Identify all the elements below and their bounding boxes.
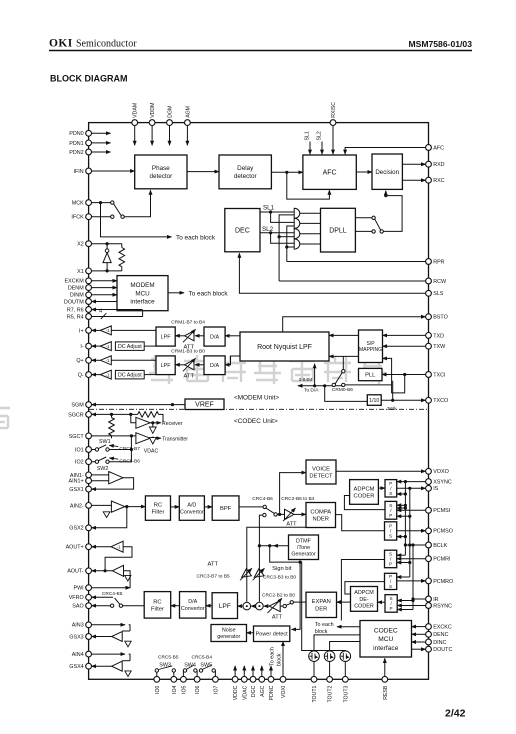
switch SW1 contact a	[95, 448, 98, 451]
svg-text:CRC4-B6: CRC4-B6	[252, 496, 273, 502]
wire clock select right	[345, 384, 392, 386]
svg-text:ADPCM: ADPCM	[354, 486, 375, 492]
switch SW1 blade	[98, 445, 106, 449]
svg-text:DER: DER	[315, 607, 327, 613]
svg-text:DC Adjust: DC Adjust	[118, 344, 142, 350]
control arrow CRC5-B7	[109, 445, 118, 446]
amp Q+ buffer	[92, 359, 101, 361]
pin VFRO	[86, 594, 92, 600]
pin XSYNC	[426, 479, 432, 485]
svg-text:-1: -1	[106, 372, 110, 377]
svg-text:RC: RC	[153, 599, 161, 605]
wire Decision to RXC	[402, 179, 425, 181]
svg-text:generator: generator	[217, 634, 240, 640]
svg-text:SL1: SL1	[305, 131, 311, 140]
svg-text:IFCK: IFCK	[71, 215, 84, 221]
wire SL1 from DEC	[260, 211, 294, 213]
svg-text:Filter: Filter	[152, 510, 165, 516]
svg-text:CRC2-B2 to B0: CRC2-B2 to B0	[262, 592, 295, 598]
switch DPLL blade	[375, 219, 381, 230]
pin BSTO	[426, 314, 432, 320]
wire GSX3 out	[92, 636, 112, 638]
svg-text:RSYNC: RSYNC	[433, 603, 452, 609]
attenuator TX ATT	[285, 509, 294, 519]
node TXCI junction	[403, 373, 406, 376]
wire clock to 1/10 input	[323, 384, 326, 387]
pin X1	[86, 268, 92, 274]
pin PDNC	[268, 676, 274, 682]
pin IFCK	[86, 214, 92, 220]
wire IR to S/P6	[413, 598, 426, 600]
block COMPANDER	[306, 503, 336, 528]
svg-text:R7, R6: R7, R6	[67, 307, 84, 313]
block RC Filter RX	[144, 592, 171, 619]
svg-text:-1: -1	[106, 328, 110, 333]
separator dash-dot line MODEM/CODEC	[89, 408, 429, 410]
svg-text:SW2: SW2	[97, 466, 109, 472]
svg-text:SAO: SAO	[72, 604, 83, 610]
wire DINC	[412, 641, 426, 643]
block Phase detector	[135, 155, 187, 189]
svg-text:PCMSI: PCMSI	[433, 508, 450, 514]
svg-text:COMPA: COMPA	[310, 509, 331, 515]
bus arrow to S/P2 b	[397, 515, 410, 517]
wire VOICE DETECT to VOXO	[336, 470, 426, 472]
wire Sign bit path	[270, 546, 346, 651]
switch DPLL contact common	[380, 230, 383, 233]
pin I-	[86, 343, 92, 349]
wire RC to A/D	[171, 506, 180, 508]
wire driver2 feed	[330, 642, 360, 651]
wire PDN1	[92, 142, 111, 144]
svg-text:To D/A: To D/A	[304, 388, 319, 394]
block S/P 2	[385, 501, 397, 519]
wire VFRO	[92, 596, 114, 598]
pin DGM	[167, 120, 173, 126]
wire AIN2 feedback to GSX2	[92, 507, 127, 528]
svg-text:Semiconductor: Semiconductor	[76, 39, 137, 50]
wire Power detect to Noise generator	[247, 632, 254, 634]
svg-text:VDDM: VDDM	[150, 103, 156, 118]
block AFC U-AFC	[303, 155, 356, 189]
wire S/P2 to ADPCM CODER loop	[344, 496, 385, 510]
wire S/P MAPPING to Root Nyquist upper	[329, 334, 359, 336]
svg-text:EXCKC: EXCKC	[433, 625, 452, 631]
amp Receiver	[131, 414, 136, 422]
wire DENC	[412, 633, 426, 635]
wire AIN4	[92, 653, 126, 655]
wire Delay detector to AFC	[271, 171, 303, 173]
svg-text:block: block	[315, 629, 328, 635]
svg-text:IO4: IO4	[172, 685, 178, 693]
svg-text:LPF: LPF	[219, 603, 231, 610]
wire gate1 to DPLL	[300, 212, 321, 214]
svg-text:PDNC: PDNC	[269, 685, 275, 700]
svg-text:Noise: Noise	[222, 628, 236, 634]
svg-text:S: S	[389, 534, 392, 539]
svg-text:ATT: ATT	[286, 522, 297, 528]
switch CRC4-B6 contact b (DTMF)	[263, 513, 266, 516]
wire AIN2 to RC Filter	[125, 506, 146, 508]
wire R7 R6 bus	[92, 309, 143, 311]
svg-text:detector: detector	[149, 173, 172, 180]
switch RX contact a	[290, 601, 293, 604]
pin VDDM	[149, 120, 155, 126]
pin SGCR	[86, 412, 92, 418]
wire R5 R4 bus	[92, 311, 143, 317]
svg-text:CRC3-B7 to B5: CRC3-B7 to B5	[197, 574, 230, 580]
svg-text:To each block: To each block	[189, 290, 229, 297]
block S/P 6	[385, 595, 397, 613]
svg-text:OKI: OKI	[49, 38, 73, 50]
pin PCMRI	[426, 556, 432, 562]
svg-text:IO2: IO2	[75, 460, 84, 466]
pin DOUTM	[86, 299, 92, 305]
wire driver1 feed	[314, 635, 360, 651]
wire BPF to switch	[239, 506, 263, 508]
switch MCK/IFCK blade	[114, 204, 122, 216]
wire P/S1 to IS	[397, 487, 426, 489]
wire EXPANDER to RX switch	[293, 601, 306, 603]
wire SW1 to SGCT node	[109, 449, 131, 451]
svg-text:SW1: SW1	[99, 439, 111, 445]
pin RSYNC	[426, 603, 432, 609]
oscillator inverter	[106, 244, 108, 249]
block D/A Q	[204, 356, 225, 375]
svg-text:SGM: SGM	[71, 403, 84, 409]
block ADPCM CODER	[350, 480, 379, 505]
multiplier M2	[256, 602, 264, 610]
svg-text:Filter: Filter	[151, 606, 164, 612]
block VOICE DETECT	[306, 460, 336, 484]
pin AOUT+	[86, 544, 92, 550]
multiplier M1	[243, 602, 251, 610]
svg-text:AIN1+: AIN1+	[69, 479, 84, 485]
pin GSX4	[86, 663, 92, 669]
bus arrow to P/S1	[397, 493, 406, 495]
bus arrow to S/P4 a	[397, 554, 406, 556]
pin RCW	[426, 278, 432, 284]
svg-text:VOXI: VOXI	[281, 686, 287, 698]
switch SW2 blade	[98, 457, 106, 461]
pin IO1	[86, 447, 92, 453]
pin IO2	[86, 459, 92, 465]
block DPLL	[321, 208, 356, 252]
svg-text:interface: interface	[373, 645, 399, 652]
wire Decision to RXD	[402, 163, 425, 165]
pin EXCKM	[86, 278, 92, 284]
pin GSX1	[86, 486, 92, 492]
svg-text:CODER: CODER	[354, 603, 374, 609]
block RC Filter TX	[145, 496, 170, 520]
svg-text:DINC: DINC	[433, 640, 446, 646]
svg-text:P: P	[389, 513, 392, 518]
switch CRC4-B6 contact common	[274, 513, 277, 516]
pin TXW	[426, 343, 432, 349]
svg-text:DOUTC: DOUTC	[433, 647, 452, 653]
svg-text:PCMRI: PCMRI	[433, 557, 450, 563]
amp I- buffer	[92, 345, 101, 347]
wire 3.84M clock line	[298, 385, 344, 387]
header rule	[49, 50, 472, 52]
block DTMF /Tone Generator	[289, 535, 319, 560]
pin DENC	[426, 631, 432, 637]
pin TXCO	[426, 397, 432, 403]
svg-text:SW3: SW3	[159, 662, 171, 668]
attenuator RX gain sym1	[239, 568, 252, 581]
wire DENM	[92, 287, 118, 289]
block LPF RX	[212, 593, 237, 619]
switch MCK/IFCK contact lower	[111, 215, 114, 218]
pin AIN1+	[86, 478, 92, 484]
watermark	[0, 355, 386, 429]
svg-text:GSX3: GSX3	[69, 634, 83, 640]
svg-text:TOUT1: TOUT1	[312, 685, 318, 702]
wire X2	[92, 243, 122, 245]
pin Q+	[86, 357, 92, 363]
svg-text:interface: interface	[130, 299, 155, 306]
svg-text:CRC3-B3 to B0: CRC3-B3 to B0	[263, 575, 296, 581]
svg-text:PLL: PLL	[365, 373, 376, 379]
svg-text:CRC5-B5: CRC5-B5	[158, 654, 179, 660]
svg-text:VDDC: VDDC	[233, 685, 239, 700]
amp GSX3	[112, 632, 123, 642]
svg-text:VDAC: VDAC	[144, 448, 159, 454]
wire SL2 from DEC	[260, 232, 294, 234]
svg-text:AFC: AFC	[323, 170, 337, 177]
wire clock to Phase detector bottom	[124, 190, 150, 217]
wire AFC to Decision	[356, 171, 372, 173]
bus vertical A	[404, 482, 406, 556]
node sign bit tap	[268, 544, 271, 547]
attenuator ATT Q	[195, 364, 204, 366]
wire S/P4 to CODEC MCU	[341, 560, 384, 621]
svg-text:LPF: LPF	[161, 334, 172, 340]
svg-text:P: P	[389, 562, 392, 567]
switch SW4	[182, 671, 184, 677]
svg-text:EXCKM: EXCKM	[65, 279, 85, 285]
pin RESB	[382, 676, 388, 682]
svg-text:PCMSO: PCMSO	[433, 529, 453, 535]
pin PCMSO	[426, 528, 432, 534]
svg-text:CRC4-B5: CRC4-B5	[102, 591, 123, 597]
svg-text:P: P	[390, 606, 393, 611]
pin SGCT	[86, 433, 92, 439]
svg-text:IO5: IO5	[181, 685, 187, 693]
wire DPLL out upper to switch	[355, 217, 372, 219]
pin AIN4	[86, 651, 92, 657]
block Noise generator	[211, 625, 247, 642]
wire DGC arrow	[252, 666, 254, 677]
pin TOUT2	[327, 676, 333, 682]
pin IS	[426, 485, 432, 491]
svg-text:DENM: DENM	[68, 286, 84, 292]
wire IFIN to Phase detector	[92, 170, 135, 172]
svg-text:To each: To each	[315, 622, 334, 628]
svg-text:CRC5-B7: CRC5-B7	[119, 446, 140, 452]
resistor SGCR series vertical	[111, 414, 113, 417]
svg-text:2/42: 2/42	[445, 708, 466, 720]
svg-text:TXW: TXW	[433, 344, 446, 350]
svg-text:GSX1: GSX1	[69, 487, 83, 493]
wire RPR riser branch gate4	[287, 246, 294, 248]
svg-text:VOICE: VOICE	[312, 466, 330, 472]
block Root Nyquist LPF	[240, 332, 329, 361]
svg-text:NDER: NDER	[313, 517, 329, 523]
node SL2 branch	[269, 231, 272, 234]
svg-text:CRC2-B6 to B4: CRC2-B6 to B4	[281, 496, 314, 502]
svg-text:AFC: AFC	[433, 145, 444, 151]
svg-text:RXD: RXD	[433, 162, 444, 168]
pin RXC	[426, 177, 432, 183]
svg-text:Root Nyquist LPF: Root Nyquist LPF	[257, 344, 312, 351]
vdac tap receiver	[152, 423, 154, 427]
wire PCMRI to S/P4	[397, 558, 426, 560]
svg-text:Q+: Q+	[76, 358, 83, 364]
svg-text:CRC5-B4: CRC5-B4	[192, 654, 213, 660]
switch DPLL contact lower	[372, 230, 375, 233]
svg-text:To each: To each	[270, 647, 276, 666]
wire Root Nyquist to D/A I	[225, 335, 240, 337]
wire EXCKC	[412, 626, 426, 628]
svg-text:MSM7586-01/03: MSM7586-01/03	[408, 39, 472, 49]
pin AGC	[259, 676, 265, 682]
wire RCW riser branch gate3	[279, 236, 294, 238]
wire TXCI branch to clock select	[383, 358, 405, 393]
switch VFRO/SAO contact b	[119, 604, 122, 607]
wire RCW riser to gate1	[279, 215, 294, 281]
wire RESB to CODEC MCU	[384, 658, 386, 676]
svg-text:DTMF: DTMF	[296, 539, 312, 545]
pin R5, R4	[86, 314, 92, 320]
pin AFC	[426, 145, 432, 151]
svg-text:4: 4	[99, 309, 102, 315]
wire DTMF output	[259, 545, 288, 547]
block DC Adjust I	[115, 342, 144, 351]
svg-text:RPR: RPR	[433, 259, 444, 265]
wire TXD to S/P MAPPING	[383, 334, 426, 336]
bus vertical C	[412, 545, 414, 610]
block divider 1/10	[367, 395, 381, 406]
svg-text:-1: -1	[117, 544, 121, 549]
vdac tap AOUT	[125, 575, 131, 581]
pin DOUTC	[426, 646, 432, 652]
wire RX ATT to multiplier2	[264, 605, 270, 607]
wire SL1 stub into AFC top	[309, 142, 311, 155]
wire VDDC arrow	[234, 666, 236, 677]
svg-text:CODER: CODER	[354, 494, 375, 500]
pin SAO	[86, 603, 92, 609]
pin PCMSI	[426, 507, 432, 513]
chip outer border	[89, 123, 429, 680]
pin GSX3	[86, 634, 92, 640]
svg-text:MCU: MCU	[135, 290, 150, 297]
svg-text:AIN2-: AIN2-	[70, 503, 84, 509]
wire PWI to AOUT- amp	[92, 587, 131, 589]
svg-text:GSX4: GSX4	[69, 664, 83, 670]
svg-text:IO1: IO1	[75, 447, 84, 453]
svg-text:CODEC: CODEC	[374, 627, 398, 634]
block ADPCM DE-CODER	[351, 587, 378, 612]
wire IFCK	[92, 216, 111, 218]
wire DOUTC	[412, 648, 426, 650]
block Decision	[372, 154, 402, 189]
wire AIN3	[92, 624, 126, 626]
node SL1 branch	[269, 210, 272, 213]
svg-text:IO0: IO0	[155, 685, 161, 693]
amp GSX4	[112, 661, 123, 671]
svg-text:CRM1-B7 to B4: CRM1-B7 to B4	[171, 320, 205, 326]
pin SGM	[86, 402, 92, 408]
svg-text:TOUT3: TOUT3	[343, 685, 349, 702]
svg-text:CRM1-B3 to B0: CRM1-B3 to B0	[171, 349, 205, 355]
svg-text:MCK: MCK	[72, 201, 84, 207]
bus width 4 slash	[101, 313, 107, 319]
node RCW riser gate3 branch	[278, 235, 281, 238]
svg-text:Phase: Phase	[152, 165, 170, 172]
block BPF	[212, 496, 239, 520]
switch CRM0-B6 blade	[335, 373, 342, 384]
pin PDN0	[86, 130, 92, 136]
vdac tap transmitter	[152, 437, 154, 438]
pin IO0	[154, 676, 160, 682]
svg-text:DC Adjust: DC Adjust	[118, 373, 142, 379]
transistor TOUT3 driver	[340, 651, 351, 662]
svg-text:DPLL: DPLL	[329, 228, 347, 235]
block EXPANDER	[306, 592, 337, 617]
wire 3.84M to S/P MAPPING bottom	[314, 364, 316, 386]
wire VDAC arrow	[243, 666, 245, 677]
wire TXCI to PLL	[382, 374, 426, 376]
wire gate4 to DPLL	[300, 243, 321, 245]
wire switch common to ATT	[277, 513, 284, 515]
pin SLS	[426, 290, 432, 296]
wire Root Nyquist to D/A Q	[225, 356, 240, 365]
block P/S 1	[385, 480, 397, 497]
switch SW2 contact b	[106, 460, 109, 463]
gate G3 phase comparator	[294, 229, 300, 239]
wire ADPCM CODER to P/S1	[378, 487, 385, 489]
resistor SGCR feedback horizontal	[131, 413, 138, 415]
svg-text:BPF: BPF	[220, 506, 232, 512]
svg-text:AGM: AGM	[185, 106, 191, 118]
svg-text:384k: 384k	[387, 406, 397, 411]
switch CRC4-B6 blade	[266, 508, 274, 513]
svg-text:MAPPING: MAPPING	[359, 347, 382, 353]
wire AFC pin to AFC block top	[345, 148, 426, 155]
attenuator ATT I	[195, 335, 204, 337]
svg-text:SGCR: SGCR	[68, 412, 84, 418]
wire gate2 to DPLL	[300, 222, 321, 224]
wire arrow into Decision bottom	[385, 191, 387, 196]
pin DINC	[426, 639, 432, 645]
block D/A Convertor RX	[180, 592, 206, 619]
wire P/S5 loop to ADPCM DECODER	[345, 582, 385, 594]
block D/A I	[204, 327, 225, 346]
switch VFRO/SAO contact a	[110, 604, 113, 607]
pin IFIN	[86, 168, 92, 174]
pin VDDC	[232, 676, 238, 682]
wire clock select up	[342, 356, 344, 369]
pin DGC	[250, 676, 256, 682]
svg-text:X1: X1	[77, 269, 84, 275]
wire SGM to VREF	[92, 404, 186, 406]
wire AGC arrow	[261, 666, 263, 677]
svg-text:RXISC: RXISC	[331, 102, 337, 118]
svg-text:PDN2: PDN2	[69, 150, 83, 156]
switch RX blade	[286, 603, 291, 605]
pin TXCI	[426, 372, 432, 378]
